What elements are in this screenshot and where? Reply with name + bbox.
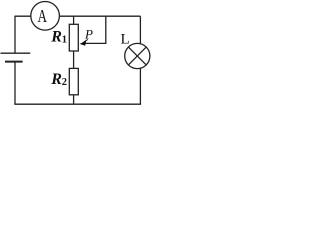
- wire between R1 and R2: [73, 51, 75, 68]
- svg-text:A: A: [38, 6, 48, 26]
- svg-text:R1: R1: [50, 28, 67, 45]
- svg-text:P: P: [84, 27, 93, 42]
- wire left rail lower: [14, 62, 16, 104]
- wire wiper from top rail: [85, 16, 106, 43]
- ammeter U1: [31, 2, 60, 31]
- wire right rail: [139, 16, 141, 104]
- svg-text:R2: R2: [50, 71, 67, 88]
- battery short plate: [5, 61, 23, 63]
- wiper arrow of R1: [80, 39, 88, 45]
- wire R1 top stub: [73, 16, 75, 24]
- resistor R1: [69, 24, 78, 51]
- lamp L: [125, 43, 150, 68]
- resistor R2: [69, 68, 78, 94]
- wire left rail upper: [14, 16, 16, 54]
- wire R2 bottom stub: [73, 95, 75, 104]
- svg-text:L: L: [121, 32, 130, 48]
- battery long plate: [1, 52, 31, 54]
- wire bottom rail: [14, 103, 141, 105]
- wire top rail: [15, 15, 140, 17]
